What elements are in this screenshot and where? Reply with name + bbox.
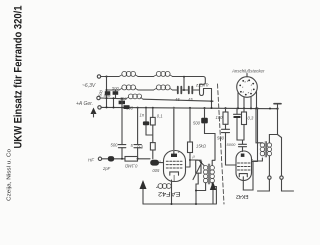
node B2 [113, 107, 115, 109]
transformer T2 [265, 142, 266, 158]
svg-text:0,1: 0,1 [157, 114, 163, 119]
node B1 [106, 106, 108, 108]
svg-text:b: b [243, 90, 245, 94]
svg-text:45: 45 [175, 97, 180, 102]
cathode V2 [239, 174, 247, 181]
wire column x134 [137, 108, 139, 159]
wire anode branch resistor column x190 [187, 108, 191, 167]
capacitor series C7 [178, 87, 182, 94]
node C6 [255, 107, 257, 109]
capacitor block C3 [119, 101, 125, 105]
svg-text:UKW Einsatz für Ferrando 320/1: UKW Einsatz für Ferrando 320/1 [13, 6, 25, 149]
arrow input pointer [91, 108, 97, 115]
svg-text:5000: 5000 [227, 142, 237, 147]
svg-text:~6,3V: ~6,3V [82, 83, 96, 89]
wire rail2 [107, 89, 200, 91]
choke L2 [154, 71, 173, 76]
trimmer C12 [196, 160, 201, 173]
capacitor blob C9 [143, 121, 149, 125]
resistor R2 [150, 143, 155, 150]
wire HF line [102, 159, 164, 163]
node C3 [243, 107, 245, 109]
node A4 [121, 98, 123, 100]
svg-text:EK42: EK42 [236, 193, 249, 199]
capacitor C15 [234, 108, 243, 140]
wire cathode to bottom [171, 180, 173, 204]
node C7 [269, 108, 271, 110]
choke L5 [126, 94, 143, 99]
terminal out2 [280, 176, 283, 179]
svg-text:500: 500 [152, 168, 160, 173]
wire vertical to bus [211, 89, 213, 109]
wire rail1 heater [101, 77, 206, 89]
wire out2 elbow [282, 179, 294, 191]
svg-text:z.ZwTr: z.ZwTr [195, 83, 209, 88]
svg-text:500: 500 [111, 143, 119, 148]
socket stubs to bus [238, 92, 257, 109]
svg-text:500: 500 [193, 121, 201, 126]
svg-text:45: 45 [188, 97, 193, 102]
node B3 [121, 107, 123, 109]
wire output1 drop [268, 156, 270, 176]
node T1b [195, 190, 197, 192]
trimmer arrow [193, 163, 202, 180]
node B4 [137, 107, 139, 109]
capacitor blob C10 [108, 156, 114, 161]
node B7 [173, 107, 175, 109]
node C4 [250, 107, 252, 109]
node A1 [106, 89, 108, 91]
node C1 [225, 107, 227, 109]
node rail1-a [106, 76, 108, 78]
svg-text:Anschlußstecker: Anschlußstecker [231, 69, 265, 74]
svg-text:1n: 1n [140, 113, 145, 118]
heater V1 [173, 175, 175, 181]
svg-text:100: 100 [216, 115, 224, 120]
wire T2 secondary top [269, 135, 277, 143]
svg-text:5: 5 [131, 143, 134, 148]
wire bottom ground [143, 187, 216, 205]
node B10 [211, 107, 213, 109]
anode lead V1 [173, 108, 175, 156]
anode plate V1 [171, 154, 177, 157]
wire vertical x113.5 [113, 98, 115, 107]
wire vertical x106.5 [106, 77, 108, 108]
capacitor C16 [239, 140, 247, 152]
node HF-122 [121, 158, 123, 160]
svg-text:µ: µ [193, 154, 196, 159]
svg-text:Czeija, Nissl u. Co: Czeija, Nissl u. Co [7, 149, 13, 201]
node bottom1 [171, 203, 173, 205]
grid dashes V2 [238, 163, 251, 170]
cathode coil V1 [157, 184, 172, 189]
transformer T1 [208, 164, 209, 184]
node B5 [145, 107, 147, 109]
terminal HF input [98, 157, 101, 160]
node C2 [237, 107, 239, 109]
wire grid column x122 [121, 99, 123, 159]
T2 left coil [260, 143, 264, 156]
wire T2 primary top [256, 108, 262, 142]
capacitor C6 [134, 145, 141, 148]
capacitor blob C13 [201, 118, 208, 124]
choke L4 [154, 85, 173, 90]
terminal heater ~6,3V [97, 75, 100, 78]
svg-text:500: 500 [217, 136, 225, 141]
ground [274, 103, 281, 105]
node A3 [113, 97, 115, 99]
capacitor series C8 [189, 87, 193, 94]
tube V2 EK42 [236, 151, 252, 181]
arrow chassis right [212, 189, 214, 205]
choke L1 [119, 71, 138, 76]
svg-text:0,3: 0,3 [248, 116, 254, 121]
node B6 [152, 107, 154, 109]
svg-text:500: 500 [104, 93, 111, 98]
wire hook U-dip [200, 89, 212, 96]
capacitor C14 [222, 129, 230, 132]
svg-text:500: 500 [112, 85, 119, 90]
wire bus lineB [101, 107, 277, 108]
node A5 [211, 100, 213, 102]
resistor R1 [150, 117, 155, 125]
wire output2 drop [278, 135, 282, 176]
capacitor block C2 [113, 91, 119, 95]
wire column x152 [152, 108, 154, 159]
grid dashes V1 [166, 161, 182, 168]
svg-text:+A Ger.: +A Ger. [76, 101, 93, 107]
node HF-134 [137, 158, 139, 160]
node B9 [204, 107, 206, 109]
resistor R3 horizontal [125, 157, 138, 162]
node bottom2 [195, 203, 197, 205]
svg-text:e: e [248, 91, 250, 94]
svg-text:15kΩ: 15kΩ [196, 144, 207, 149]
terminal rail3 [97, 96, 100, 99]
node C5 [257, 107, 259, 109]
cathode V1 [170, 172, 179, 175]
wire vertical between caps [183, 77, 185, 90]
capacitor C5 [118, 145, 125, 148]
terminal bus [98, 106, 101, 109]
connector socket circle [237, 77, 258, 98]
socket pins [239, 79, 254, 95]
svg-text:s: s [242, 86, 244, 89]
node A2 [106, 97, 108, 99]
wire to T1 top [190, 160, 204, 166]
wire out1 elbow [258, 179, 270, 191]
T1 left coil [203, 166, 207, 183]
svg-text:EAF42: EAF42 [157, 190, 180, 196]
anode plate V2 [241, 154, 245, 157]
socket key tick [246, 74, 248, 77]
node B8 [189, 107, 191, 109]
svg-text:HF: HF [88, 157, 94, 162]
capacitor block C4 [124, 105, 130, 109]
T2 right coil [267, 143, 271, 156]
resistor R6 [242, 112, 247, 125]
node rail1-b [183, 76, 185, 78]
wire rail3 lineA [100, 98, 213, 101]
wire column x140 [146, 108, 152, 135]
resistor R5 [223, 112, 228, 124]
terminal out1 [268, 176, 271, 179]
wire V2 right to bus [252, 108, 258, 161]
wire T1 left bottom [196, 183, 206, 191]
svg-text:0,1MΩ: 0,1MΩ [124, 164, 137, 169]
T1 right coil [210, 166, 214, 183]
capacitor block C1a [105, 91, 111, 95]
socket pin letters [242, 80, 253, 95]
node C8 [276, 108, 278, 110]
svg-text:0,3: 0,3 [137, 144, 143, 149]
svg-text:a: a [178, 150, 180, 154]
arrow chassis left [142, 188, 144, 204]
wire V2 bottom [243, 158, 262, 190]
capacitor blob C11 grid [150, 160, 159, 166]
svg-text:f: f [251, 88, 252, 92]
resistor R4 [188, 142, 193, 153]
choke L3 [119, 85, 138, 90]
tube V1 EAF42 [164, 151, 186, 182]
node R4 bottom [189, 159, 191, 161]
shield dashed line [218, 84, 225, 204]
node rail2-x184 [183, 89, 185, 91]
svg-text:2pF: 2pF [102, 166, 111, 171]
wire T1 right bottom [212, 183, 216, 187]
